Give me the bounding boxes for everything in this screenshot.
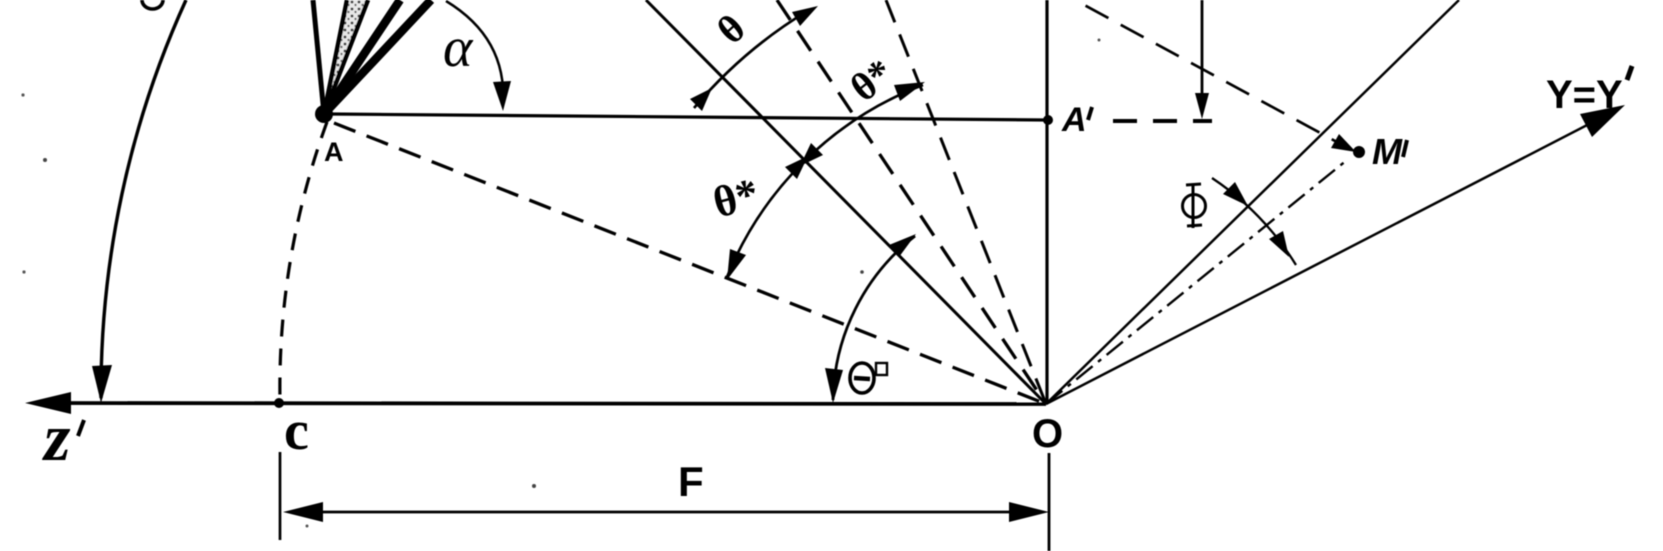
svg-text:θ: θ (708, 5, 754, 52)
svg-text:α: α (443, 17, 474, 79)
svg-text:A: A (324, 137, 344, 167)
svg-text:Y=Y: Y=Y (1546, 73, 1623, 117)
svg-text:θ*: θ* (842, 50, 902, 111)
svg-text:F: F (678, 458, 704, 505)
svg-text:c: c (284, 400, 309, 462)
svg-text:M: M (1372, 131, 1403, 172)
svg-text:z: z (42, 399, 71, 475)
svg-text:O: O (1032, 412, 1063, 456)
svg-text:θ*: θ* (708, 169, 764, 228)
svg-text:A: A (1061, 101, 1087, 139)
